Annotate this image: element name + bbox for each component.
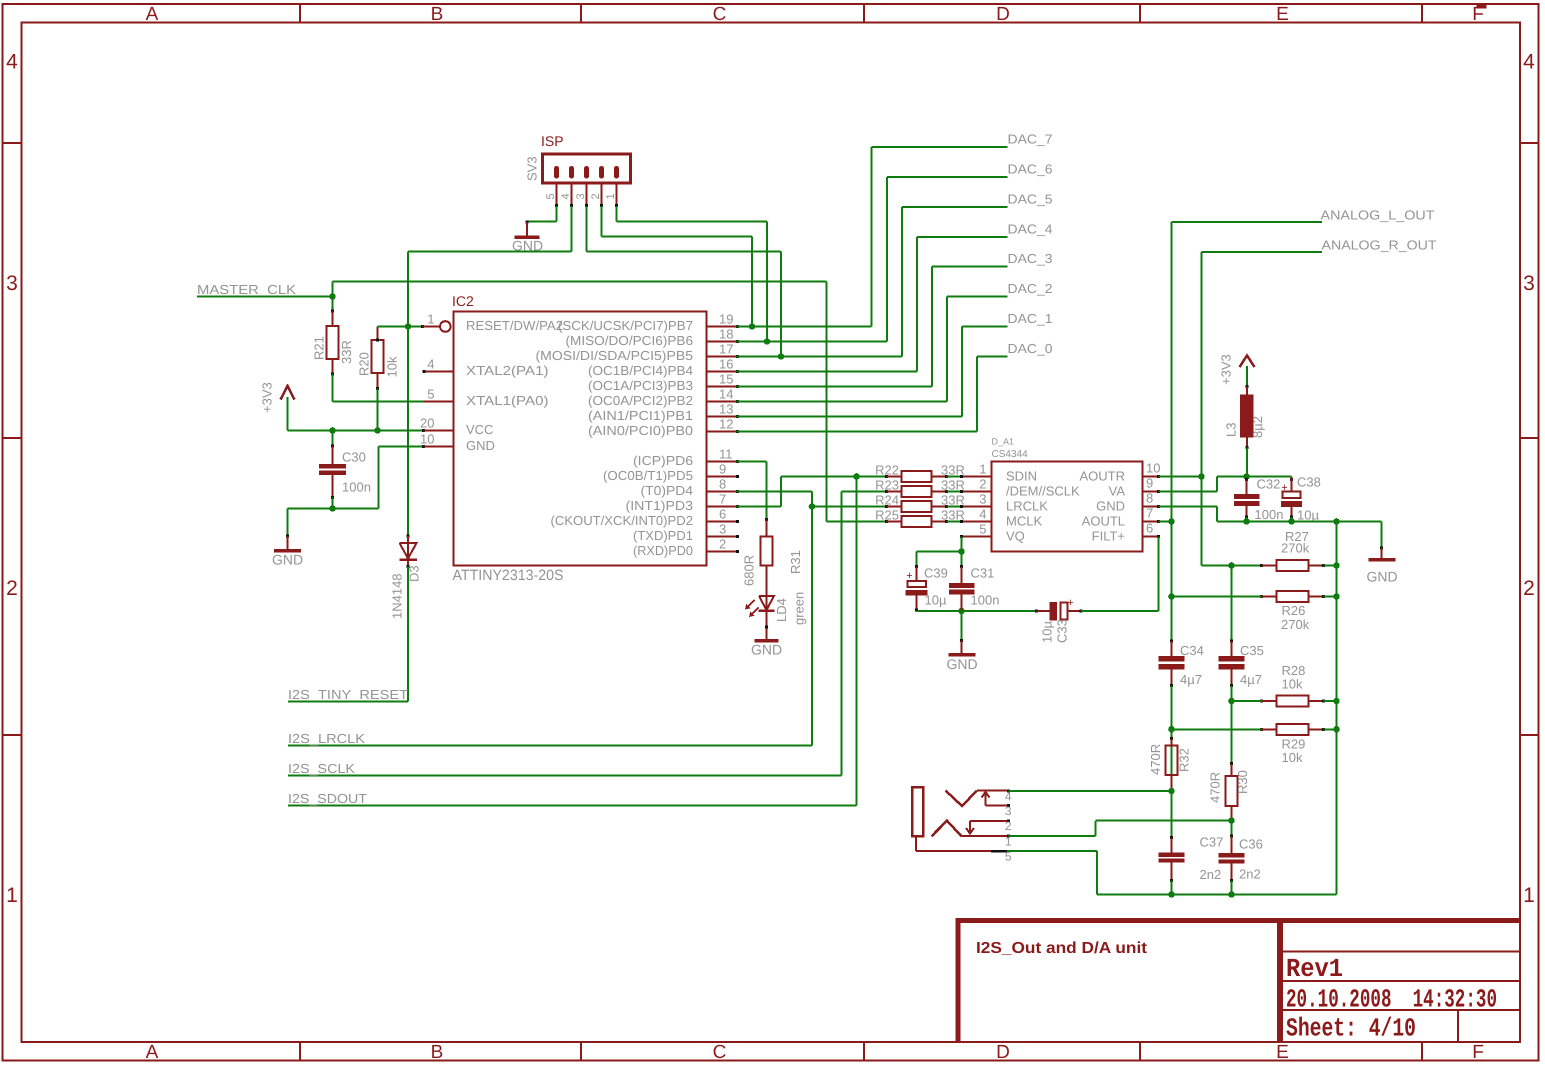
svg-text:I2S_LRCLK: I2S_LRCLK <box>288 731 365 746</box>
svg-text:(OC1B/PCI4)PB4: (OC1B/PCI4)PB4 <box>588 363 693 378</box>
svg-text:R31: R31 <box>788 550 803 574</box>
svg-text:1: 1 <box>1523 884 1535 907</box>
svg-text:9: 9 <box>1146 476 1153 491</box>
svg-text:(OC0A/PCI2)PB2: (OC0A/PCI2)PB2 <box>588 393 693 408</box>
svg-text:DAC_7: DAC_7 <box>1008 132 1053 147</box>
svg-text:(INT1)PD3: (INT1)PD3 <box>626 498 694 513</box>
svg-text:1: 1 <box>979 462 986 477</box>
svg-text:GND: GND <box>946 656 977 672</box>
svg-text:7: 7 <box>1146 506 1153 521</box>
svg-text:2n2: 2n2 <box>1200 867 1222 882</box>
svg-text:GND: GND <box>1366 569 1397 585</box>
svg-text:C30: C30 <box>342 450 366 465</box>
svg-text:9: 9 <box>719 462 726 477</box>
svg-text:2: 2 <box>979 477 986 492</box>
svg-text:GND: GND <box>272 552 303 568</box>
svg-text:100n: 100n <box>1255 507 1284 522</box>
svg-text:C31: C31 <box>971 566 995 581</box>
svg-text:D_A1: D_A1 <box>992 437 1015 447</box>
svg-text:E: E <box>1276 1042 1289 1063</box>
svg-text:R24: R24 <box>875 493 899 508</box>
svg-text:MASTER_CLK: MASTER_CLK <box>197 282 296 297</box>
svg-text:1: 1 <box>605 193 617 199</box>
svg-text:2n2: 2n2 <box>1239 867 1261 882</box>
svg-text:B: B <box>431 1042 444 1063</box>
svg-text:C: C <box>713 1042 727 1063</box>
svg-text:(TXD)PD1: (TXD)PD1 <box>633 528 693 543</box>
svg-text:10k: 10k <box>1282 677 1303 692</box>
svg-text:D: D <box>996 4 1010 25</box>
svg-text:4µ7: 4µ7 <box>1240 672 1262 687</box>
svg-text:GND: GND <box>1096 499 1125 514</box>
svg-text:13: 13 <box>719 402 733 417</box>
svg-text:10k: 10k <box>385 356 400 377</box>
svg-text:5: 5 <box>545 193 557 199</box>
svg-text:C32: C32 <box>1257 477 1281 492</box>
svg-text:IC2: IC2 <box>452 293 474 309</box>
svg-text:LRCLK: LRCLK <box>1006 499 1048 514</box>
svg-text:Rev1: Rev1 <box>1286 954 1343 984</box>
svg-text:I2S_TINY_RESET: I2S_TINY_RESET <box>288 687 408 702</box>
svg-text:6: 6 <box>1146 521 1153 536</box>
svg-text:green: green <box>792 592 807 625</box>
svg-text:SDIN: SDIN <box>1006 469 1037 484</box>
svg-text:/DEM//SCLK: /DEM//SCLK <box>1006 484 1080 499</box>
svg-text:Sheet: 4/10: Sheet: 4/10 <box>1286 1014 1416 1044</box>
svg-text:ANALOG_R_OUT: ANALOG_R_OUT <box>1322 238 1437 253</box>
svg-text:DAC_4: DAC_4 <box>1008 222 1053 237</box>
svg-text:R21: R21 <box>312 336 327 360</box>
svg-text:8µ2: 8µ2 <box>1250 416 1265 438</box>
svg-text:10: 10 <box>420 432 434 447</box>
svg-text:10k: 10k <box>1282 750 1303 765</box>
svg-text:A: A <box>146 1042 159 1063</box>
svg-text:1N4148: 1N4148 <box>390 573 405 619</box>
svg-text:33R: 33R <box>339 340 354 364</box>
svg-text:D3: D3 <box>407 565 422 582</box>
svg-text:+3V3: +3V3 <box>1219 354 1234 385</box>
svg-text:+: + <box>1281 482 1287 494</box>
svg-text:C37: C37 <box>1200 835 1224 850</box>
svg-text:C35: C35 <box>1240 643 1264 658</box>
svg-text:DAC_0: DAC_0 <box>1008 341 1053 356</box>
svg-text:AOUTR: AOUTR <box>1080 469 1126 484</box>
svg-text:R22: R22 <box>875 463 899 478</box>
svg-text:10µ: 10µ <box>1040 621 1055 643</box>
svg-text:C36: C36 <box>1239 837 1263 852</box>
svg-text:(CKOUT/XCK/INT0)PD2: (CKOUT/XCK/INT0)PD2 <box>551 513 694 528</box>
svg-text:R30: R30 <box>1235 770 1250 794</box>
svg-text:10µ: 10µ <box>925 593 947 608</box>
svg-text:4: 4 <box>560 193 572 199</box>
svg-text:2: 2 <box>1523 577 1535 600</box>
svg-text:DAC_2: DAC_2 <box>1008 281 1053 296</box>
svg-text:GND: GND <box>466 438 495 453</box>
svg-text:(MOSI/DI/SDA/PCI5)PB5: (MOSI/DI/SDA/PCI5)PB5 <box>536 348 694 363</box>
svg-text:20: 20 <box>420 416 434 431</box>
svg-text:5: 5 <box>427 387 434 402</box>
svg-text:1: 1 <box>6 884 18 907</box>
svg-text:5: 5 <box>979 522 986 537</box>
svg-text:18: 18 <box>719 327 733 342</box>
svg-text:ATTINY2313-20S: ATTINY2313-20S <box>453 567 564 584</box>
svg-text:11: 11 <box>719 447 733 462</box>
svg-text:(AIN1/PCI1)PB1: (AIN1/PCI1)PB1 <box>588 408 693 423</box>
svg-text:FILT+: FILT+ <box>1092 529 1125 544</box>
svg-text:2: 2 <box>590 193 602 199</box>
svg-text:DAC_3: DAC_3 <box>1008 251 1053 266</box>
svg-text:3: 3 <box>6 272 18 295</box>
svg-text:14: 14 <box>719 387 733 402</box>
svg-text:6: 6 <box>719 507 726 522</box>
svg-text:470R: 470R <box>1148 744 1163 775</box>
svg-text:R20: R20 <box>357 352 372 376</box>
svg-text:C38: C38 <box>1297 475 1321 490</box>
svg-text:680R: 680R <box>742 555 757 586</box>
svg-text:GND: GND <box>751 642 782 658</box>
svg-text:+3V3: +3V3 <box>260 382 275 413</box>
svg-text:3: 3 <box>1005 804 1012 818</box>
svg-text:AOUTL: AOUTL <box>1082 514 1125 529</box>
svg-text:+: + <box>906 570 912 582</box>
svg-text:(OC0B/T1)PD5: (OC0B/T1)PD5 <box>603 468 693 483</box>
svg-text:R32: R32 <box>1177 748 1192 772</box>
svg-text:DAC_1: DAC_1 <box>1008 311 1053 326</box>
svg-text:I2S_SDOUT: I2S_SDOUT <box>288 791 367 806</box>
svg-text:LD4: LD4 <box>774 598 789 622</box>
svg-text:(ICP)PD6: (ICP)PD6 <box>633 453 693 468</box>
svg-text:5: 5 <box>1005 850 1012 864</box>
svg-text:4: 4 <box>6 51 18 74</box>
svg-text:10µ: 10µ <box>1297 508 1319 523</box>
svg-text:20.10.2008 14:32:30: 20.10.2008 14:32:30 <box>1286 985 1497 1015</box>
svg-text:3: 3 <box>979 492 986 507</box>
svg-text:17: 17 <box>719 342 733 357</box>
svg-text:4: 4 <box>427 357 434 372</box>
svg-text:A: A <box>146 4 159 25</box>
svg-text:100n: 100n <box>342 480 371 495</box>
svg-text:270k: 270k <box>1281 541 1310 556</box>
svg-text:3: 3 <box>575 193 587 199</box>
svg-text:DAC_5: DAC_5 <box>1008 192 1053 207</box>
svg-text:C: C <box>713 4 727 25</box>
svg-text:3: 3 <box>719 522 726 537</box>
svg-text:4: 4 <box>979 507 986 522</box>
svg-text:R23: R23 <box>875 478 899 493</box>
svg-text:E: E <box>1276 4 1289 25</box>
svg-text:ISP: ISP <box>541 133 564 149</box>
svg-text:4: 4 <box>1523 51 1535 74</box>
svg-text:R25: R25 <box>875 508 899 523</box>
svg-text:270k: 270k <box>1281 617 1310 632</box>
svg-text:8: 8 <box>719 477 726 492</box>
svg-text:CS4344: CS4344 <box>992 449 1029 460</box>
svg-text:RESET/DW/PA2: RESET/DW/PA2 <box>466 318 563 333</box>
svg-text:F: F <box>1472 1042 1484 1063</box>
svg-text:7: 7 <box>719 492 726 507</box>
svg-text:VCC: VCC <box>466 422 493 437</box>
svg-text:+: + <box>1067 597 1073 609</box>
svg-text:4: 4 <box>1005 790 1012 804</box>
svg-text:10: 10 <box>1146 461 1160 476</box>
svg-text:L3: L3 <box>1224 423 1239 437</box>
svg-text:SV3: SV3 <box>525 156 540 181</box>
svg-text:12: 12 <box>719 417 733 432</box>
svg-text:C33: C33 <box>1055 619 1070 643</box>
svg-text:I2S_SCLK: I2S_SCLK <box>288 761 355 776</box>
svg-text:(OC1A/PCI3)PB3: (OC1A/PCI3)PB3 <box>588 378 693 393</box>
svg-text:4µ7: 4µ7 <box>1180 672 1202 687</box>
svg-text:D: D <box>996 1042 1010 1063</box>
svg-text:100n: 100n <box>971 593 1000 608</box>
svg-text:ANALOG_L_OUT: ANALOG_L_OUT <box>1321 208 1435 223</box>
svg-text:2: 2 <box>719 537 726 552</box>
svg-text:16: 16 <box>719 357 733 372</box>
svg-text:XTAL2(PA1): XTAL2(PA1) <box>466 363 549 378</box>
svg-text:19: 19 <box>719 312 733 327</box>
svg-text:XTAL1(PA0): XTAL1(PA0) <box>466 393 549 408</box>
svg-text:(SCK/UCSK/PCI7)PB7: (SCK/UCSK/PCI7)PB7 <box>558 318 693 333</box>
svg-text:(RXD)PD0: (RXD)PD0 <box>633 543 693 558</box>
svg-text:R26: R26 <box>1282 603 1306 618</box>
svg-text:C34: C34 <box>1180 643 1204 658</box>
svg-text:VQ: VQ <box>1006 529 1025 544</box>
svg-text:2: 2 <box>1005 819 1012 833</box>
svg-text:(T0)PD4: (T0)PD4 <box>641 483 694 498</box>
svg-text:VA: VA <box>1109 484 1126 499</box>
svg-text:8: 8 <box>1146 491 1153 506</box>
svg-text:DAC_6: DAC_6 <box>1008 162 1053 177</box>
svg-text:(AIN0/PCI0)PB0: (AIN0/PCI0)PB0 <box>588 423 693 438</box>
svg-text:1: 1 <box>427 312 434 327</box>
svg-text:(MISO/DO/PCI6)PB6: (MISO/DO/PCI6)PB6 <box>566 333 694 348</box>
svg-text:1: 1 <box>1005 835 1012 849</box>
svg-text:3: 3 <box>1523 272 1535 295</box>
svg-text:470R: 470R <box>1208 772 1223 803</box>
svg-text:C39: C39 <box>924 566 948 581</box>
svg-text:15: 15 <box>719 372 733 387</box>
svg-text:I2S_Out and D/A unit: I2S_Out and D/A unit <box>976 940 1148 957</box>
svg-text:2: 2 <box>6 577 18 600</box>
svg-text:B: B <box>431 4 444 25</box>
svg-text:MCLK: MCLK <box>1006 514 1042 529</box>
